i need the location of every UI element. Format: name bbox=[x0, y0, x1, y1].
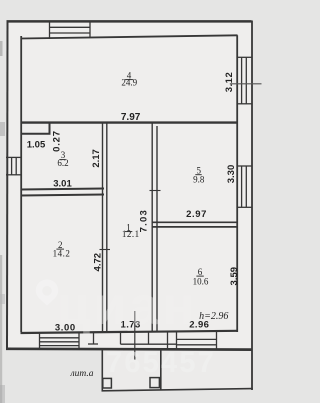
svg-text:1.05: 1.05 bbox=[27, 139, 46, 150]
svg-text:765457: 765457 bbox=[106, 347, 216, 379]
svg-text:3.30: 3.30 bbox=[226, 165, 237, 184]
porch right side bbox=[160, 350, 162, 390]
wall corridor left line1 bbox=[102, 123, 104, 332]
wall outer right bbox=[251, 21, 253, 391]
dimension tick corridor right wall bbox=[150, 190, 161, 192]
wall room4 bottom bbox=[21, 121, 238, 123]
svg-text:циан: циан bbox=[57, 276, 198, 336]
porch post right bbox=[150, 378, 159, 388]
wall inner top face bbox=[21, 35, 238, 38]
room 2 label bbox=[53, 240, 71, 259]
svg-text:12.1: 12.1 bbox=[122, 229, 140, 239]
dimension tick right wall 3.12 bbox=[230, 83, 262, 85]
watermark pin bbox=[36, 280, 58, 306]
door cell below corridor bbox=[88, 332, 177, 349]
wall outer top bbox=[7, 20, 252, 23]
svg-text:3.01: 3.01 bbox=[53, 179, 72, 190]
dimension tick corridor left wall bbox=[100, 249, 111, 251]
svg-text:7.97: 7.97 bbox=[121, 112, 141, 123]
wall room3/room2 upper line bbox=[21, 189, 105, 190]
scan edge marks bbox=[0, 41, 3, 56]
wall room5/room6 line2 bbox=[152, 226, 238, 228]
annex interior fill bbox=[102, 350, 252, 390]
svg-text:2.97: 2.97 bbox=[186, 209, 207, 220]
wall step vertical x49.5 bbox=[49, 122, 51, 135]
wall corridor right line1 bbox=[151, 123, 153, 332]
wall inner left face bbox=[20, 36, 22, 332]
room 3 label bbox=[57, 150, 68, 168]
svg-text:14.2: 14.2 bbox=[53, 249, 71, 259]
room 5 label bbox=[193, 166, 205, 185]
window left wall bbox=[6, 157, 22, 174]
wall room5/room6 line1 bbox=[152, 221, 238, 223]
svg-text:6: 6 bbox=[198, 267, 203, 277]
wall bottom interior line bbox=[21, 331, 238, 333]
svg-text:6.2: 6.2 bbox=[57, 158, 68, 168]
room 1 label bbox=[122, 222, 140, 239]
svg-text:2.17: 2.17 bbox=[91, 149, 102, 168]
wall inner right face bbox=[236, 35, 238, 332]
svg-text:9.8: 9.8 bbox=[193, 174, 205, 184]
building interior fill bbox=[7, 21, 252, 350]
porch left side bbox=[101, 350, 103, 391]
porch post left bbox=[103, 378, 112, 388]
wall room3 top bbox=[21, 133, 51, 135]
svg-text:лит.а: лит.а bbox=[70, 369, 94, 379]
door center line bbox=[134, 311, 136, 360]
svg-text:4.72: 4.72 bbox=[93, 253, 104, 272]
window right wall upper bbox=[237, 57, 253, 104]
steps right in bottom wall bbox=[177, 332, 217, 350]
svg-text:7.03: 7.03 bbox=[139, 209, 150, 232]
svg-text:24.9: 24.9 bbox=[121, 78, 137, 88]
svg-text:3.59: 3.59 bbox=[229, 267, 240, 286]
wall outer left bbox=[6, 21, 9, 349]
room 6 label bbox=[193, 267, 209, 287]
steps left in bottom wall bbox=[40, 334, 80, 350]
wall corridor left line2 bbox=[106, 123, 108, 332]
wall outer bottom bbox=[6, 347, 253, 351]
svg-text:0.27: 0.27 bbox=[51, 130, 62, 152]
wall room3/room2 lower line bbox=[21, 195, 105, 196]
annex bottom line bbox=[102, 389, 253, 391]
svg-text:3.12: 3.12 bbox=[224, 72, 235, 93]
room 4 label bbox=[121, 70, 137, 87]
window top wall bbox=[50, 22, 91, 39]
wall corridor right line2 bbox=[156, 126, 158, 332]
window right wall lower bbox=[237, 166, 253, 207]
